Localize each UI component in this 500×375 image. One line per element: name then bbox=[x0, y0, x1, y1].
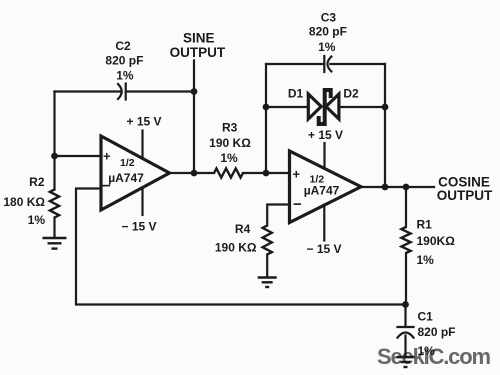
wire: loop right vertical bbox=[384, 64, 386, 187]
junction: sine node on output wire bbox=[191, 170, 198, 177]
node SINE OUTPUT label bbox=[170, 31, 226, 61]
junction: R2 / +input bbox=[51, 153, 58, 160]
svg-text:C1: C1 bbox=[418, 310, 434, 324]
wire: to op-amp U1 + input bbox=[55, 155, 102, 157]
svg-text:R3: R3 bbox=[222, 121, 238, 135]
wire: U1 +15V stub bbox=[141, 131, 143, 159]
capacitor C2 bbox=[118, 84, 126, 100]
svg-text:820 pF: 820 pF bbox=[105, 54, 143, 68]
wire: U2 +15V stub bbox=[323, 143, 325, 168]
wire: C2 feedback top (left segment) bbox=[55, 90, 121, 92]
svg-text:+: + bbox=[103, 149, 111, 164]
pin labels U1 bbox=[102, 149, 144, 195]
wire: loop left vertical bbox=[265, 64, 267, 173]
svg-text:R4: R4 bbox=[235, 222, 251, 236]
wire: U1 -input feedback down and along bottom bbox=[76, 189, 406, 305]
diode D2 (zener, pointing left) bbox=[326, 94, 339, 119]
wire: U2 output to COSINE bbox=[361, 186, 434, 188]
svg-text:190 KΩ: 190 KΩ bbox=[209, 136, 251, 150]
svg-text:1%: 1% bbox=[418, 344, 436, 358]
wire: U2 -input to R4 bbox=[267, 205, 289, 226]
pin labels U2 bbox=[293, 167, 340, 214]
node COSINE OUTPUT label bbox=[437, 175, 493, 204]
op-amp U2 (1/2 uA747) bbox=[290, 151, 362, 223]
svg-text:µA747: µA747 bbox=[108, 171, 144, 185]
ground (C1) bbox=[397, 357, 415, 367]
junction: R1 top bbox=[403, 184, 410, 191]
resistor R3 bbox=[214, 168, 243, 177]
svg-text:1/2: 1/2 bbox=[120, 157, 135, 169]
ground (R2) bbox=[43, 238, 67, 249]
wire: C2 to SINE node bbox=[127, 90, 194, 92]
wire: C3 top left segment bbox=[266, 63, 324, 65]
svg-text:1%: 1% bbox=[318, 40, 336, 54]
svg-text:R1: R1 bbox=[417, 218, 433, 232]
resistor R4 bbox=[263, 226, 272, 277]
wire: diode branch right bbox=[339, 106, 385, 108]
wire: U1 output to R3 bbox=[170, 172, 215, 174]
label R3 bbox=[209, 121, 251, 165]
svg-text:190KΩ: 190KΩ bbox=[417, 234, 456, 248]
ground (R4) bbox=[258, 278, 277, 288]
junction: loop right on output bbox=[382, 184, 389, 191]
resistor R2 bbox=[50, 156, 59, 237]
op-amp U1 (1/2 uA747) bbox=[101, 136, 170, 210]
svg-text:− 15 V: − 15 V bbox=[306, 242, 341, 256]
svg-text:190 KΩ: 190 KΩ bbox=[215, 241, 257, 255]
label R2 bbox=[3, 175, 45, 227]
wire: C3 top right segment bbox=[330, 63, 385, 65]
junction: loop left bottom bbox=[263, 170, 270, 177]
svg-text:1%: 1% bbox=[417, 253, 435, 267]
label R4 bbox=[215, 222, 257, 255]
junction: diode right bbox=[382, 104, 389, 111]
svg-text:+ 15 V: + 15 V bbox=[126, 115, 161, 129]
svg-text:1%: 1% bbox=[28, 213, 46, 227]
svg-text:180 KΩ: 180 KΩ bbox=[3, 195, 45, 209]
svg-text:µA747: µA747 bbox=[304, 184, 340, 198]
svg-text:C2: C2 bbox=[115, 39, 131, 53]
junction: C2/SINE bbox=[191, 88, 198, 95]
wire: C1 to ground bbox=[404, 336, 406, 357]
junction: bottom node bbox=[402, 301, 409, 308]
wire: bottom node to C1 bbox=[404, 305, 406, 328]
resistor R1 bbox=[401, 187, 410, 305]
label C3 bbox=[309, 11, 347, 55]
svg-text:C3: C3 bbox=[321, 11, 337, 25]
wire: SINE output vertical bbox=[193, 61, 195, 174]
label C2 bbox=[105, 39, 143, 83]
wire: left vertical from C2 to R2 top bbox=[53, 92, 55, 157]
svg-text:−: − bbox=[293, 196, 302, 213]
svg-text:+: + bbox=[293, 167, 301, 182]
svg-text:820 pF: 820 pF bbox=[418, 325, 456, 339]
svg-text:− 15 V: − 15 V bbox=[121, 220, 156, 234]
wire: U2 -15V stub bbox=[323, 205, 325, 241]
wire: diode branch left bbox=[266, 106, 309, 108]
wire: R3 to U2 + input bbox=[243, 172, 290, 174]
svg-text:820 pF: 820 pF bbox=[309, 25, 347, 39]
label C1 bbox=[418, 310, 456, 359]
zener common bar bbox=[319, 90, 331, 124]
label R1 bbox=[417, 218, 456, 267]
svg-text:1%: 1% bbox=[116, 69, 134, 83]
diode D1 (zener, pointing right) bbox=[308, 94, 321, 119]
svg-text:OUTPUT: OUTPUT bbox=[170, 45, 226, 60]
svg-text:1%: 1% bbox=[220, 151, 238, 165]
svg-text:SINE: SINE bbox=[183, 31, 215, 46]
svg-text:+ 15 V: + 15 V bbox=[308, 128, 343, 142]
svg-text:OUTPUT: OUTPUT bbox=[437, 188, 493, 203]
svg-text:D2: D2 bbox=[343, 87, 359, 101]
wire: U1 -15V stub bbox=[141, 188, 143, 216]
watermark SeekIC.com bbox=[377, 344, 491, 369]
junction: diode left bbox=[263, 104, 270, 111]
capacitor C3 bbox=[324, 56, 331, 72]
svg-text:R2: R2 bbox=[29, 175, 45, 189]
capacitor C1 bbox=[398, 327, 414, 338]
svg-text:D1: D1 bbox=[288, 87, 304, 101]
